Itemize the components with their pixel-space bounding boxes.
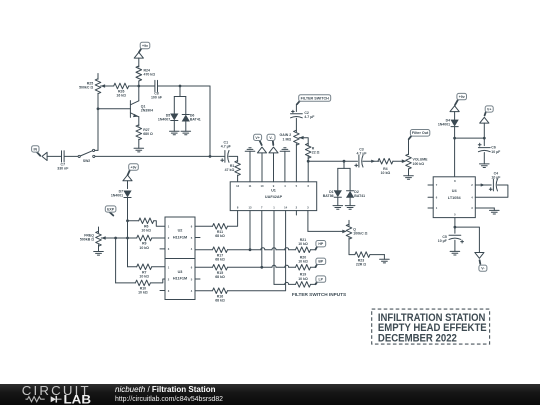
svg-text:10 µF: 10 µF — [438, 239, 448, 243]
wire (pin 5) — [454, 218, 457, 229]
svg-text:100kC Ω: 100kC Ω — [353, 232, 367, 236]
ground (D1) — [333, 206, 343, 210]
node D — [209, 155, 212, 158]
power flag V+ (rail) — [455, 106, 494, 140]
svg-text:10 kΩ: 10 kΩ — [298, 242, 308, 246]
resistor R11 — [195, 211, 238, 238]
potentiometer Q — [342, 220, 367, 254]
ground (C5) — [450, 251, 460, 255]
svg-text:1 MΩ: 1 MΩ — [283, 137, 292, 141]
capacitor C6 — [478, 138, 501, 164]
svg-text:Filter Out: Filter Out — [412, 131, 429, 135]
capacitor C1 — [221, 140, 238, 162]
op-amp U1 UAF42AP — [230, 182, 317, 211]
svg-text:10 kΩ: 10 kΩ — [138, 291, 148, 295]
optocoupler U3 — [160, 259, 200, 300]
svg-text:500kC Ω: 500kC Ω — [79, 86, 93, 90]
wire (HP line hops) — [261, 248, 296, 250]
svg-text:10 kΩ: 10 kΩ — [139, 246, 149, 250]
resistor R — [299, 138, 320, 182]
ground (VOLUME) — [404, 176, 414, 180]
resistor R19 — [296, 273, 317, 288]
svg-text:13: 13 — [249, 206, 252, 210]
op-amp U4 LT1054 — [428, 177, 475, 218]
capacitor C3 — [355, 147, 379, 167]
svg-text:FILTER SWITCH INPUTS: FILTER SWITCH INPUTS — [292, 292, 346, 297]
svg-text:22R Ω: 22R Ω — [356, 262, 366, 266]
svg-text:68 kΩ: 68 kΩ — [215, 234, 225, 238]
wire — [209, 86, 211, 156]
resistor R10 — [116, 238, 165, 295]
svg-text:BAT41: BAT41 — [354, 194, 365, 198]
svg-text:68 kΩ: 68 kΩ — [215, 257, 225, 261]
svg-text:BAT86: BAT86 — [323, 194, 334, 198]
potentiometer VOLUME — [402, 139, 428, 175]
svg-text:100 kΩ: 100 kΩ — [413, 162, 425, 166]
terminal EXP — [105, 206, 116, 216]
svg-text:LAB: LAB — [64, 392, 92, 405]
power flag V+ (pin 10) — [254, 134, 267, 182]
diode D4 — [438, 118, 458, 176]
terminal FILTER SWITCH — [297, 95, 331, 105]
terminal LP — [316, 276, 326, 284]
svg-text:LT1054: LT1054 — [448, 196, 462, 200]
svg-text:22 Ω: 22 Ω — [312, 150, 320, 154]
diode D7 — [111, 189, 131, 266]
svg-text:10 kΩ: 10 kΩ — [141, 229, 151, 233]
svg-text:UAF42AP: UAF42AP — [265, 195, 283, 199]
resistor R23 — [349, 252, 384, 267]
diode D2 — [347, 168, 366, 205]
optocoupler U2 — [160, 217, 200, 259]
power flag V- (pin 9) — [267, 134, 278, 182]
svg-text:10: 10 — [261, 184, 264, 188]
capacitor C7 — [57, 151, 78, 171]
resistor R4 — [378, 158, 402, 175]
diode D5 — [158, 86, 186, 131]
svg-text:14: 14 — [284, 206, 287, 210]
terminal IN — [32, 146, 62, 161]
label FILTER SWITCH INPUTS — [292, 292, 346, 297]
ground (U1 pin 11) — [245, 148, 255, 182]
svg-text:U2: U2 — [178, 229, 183, 233]
svg-text:4.7 µF: 4.7 µF — [221, 144, 232, 148]
svg-text:100 nF: 100 nF — [151, 95, 163, 99]
svg-text:IN: IN — [34, 147, 38, 151]
svg-text:SW2: SW2 — [83, 159, 90, 163]
wire — [95, 155, 224, 157]
svg-text:1N4007: 1N4007 — [158, 117, 170, 121]
resistor R24 — [136, 66, 155, 86]
svg-text:nicbueth / Filtration Station: nicbueth / Filtration Station — [115, 385, 216, 394]
svg-text:16 kΩ: 16 kΩ — [116, 94, 126, 98]
svg-text:+9v: +9v — [131, 165, 137, 169]
ground (C6) — [480, 164, 490, 168]
ground (R27) — [134, 148, 144, 152]
svg-text:10 kΩ: 10 kΩ — [381, 171, 391, 175]
node G — [114, 237, 117, 240]
svg-text:10 kΩ: 10 kΩ — [298, 277, 308, 281]
svg-text:12: 12 — [236, 184, 239, 188]
wire (pin 1) — [274, 211, 296, 285]
transistor Q1 — [98, 86, 153, 126]
wire (pin 7) — [260, 211, 263, 269]
resistor R21 — [296, 238, 317, 253]
resistor R16 — [195, 211, 286, 303]
svg-text:BP: BP — [318, 260, 324, 264]
switch SW2 — [78, 149, 98, 163]
resistor R20 — [296, 256, 317, 271]
svg-text:4.7 µF: 4.7 µF — [304, 115, 315, 119]
node J — [453, 137, 456, 140]
svg-text:68 kΩ: 68 kΩ — [215, 298, 225, 302]
svg-text:H11F1M: H11F1M — [173, 235, 187, 239]
node A — [137, 85, 140, 88]
ground (D6) — [181, 131, 191, 135]
capacitor C8 — [151, 80, 210, 99]
svg-text:10 µF: 10 µF — [491, 150, 501, 154]
wire (BP line hops) — [272, 265, 296, 267]
ground (U4 pin 3) — [475, 208, 499, 214]
svg-text:BAT41: BAT41 — [190, 117, 201, 121]
power flag +9v (U4 supply) — [450, 93, 467, 120]
svg-text:10 kΩ: 10 kΩ — [139, 275, 149, 279]
terminal Filter Out — [409, 130, 430, 140]
svg-text:U3: U3 — [178, 270, 183, 274]
svg-text:68 kΩ: 68 kΩ — [215, 275, 225, 279]
svg-text:10 kΩ: 10 kΩ — [298, 260, 308, 264]
ground (D5) — [170, 131, 180, 135]
svg-text:10 µF: 10 µF — [491, 176, 501, 180]
svg-text:EXP: EXP — [107, 207, 115, 211]
ground (R23) — [380, 259, 390, 263]
wire (pin 2 stub) — [295, 211, 297, 215]
node I — [343, 160, 346, 163]
svg-text:LP: LP — [319, 278, 324, 282]
resistor R17 — [195, 247, 261, 262]
svg-text:V+: V+ — [487, 107, 491, 111]
resistor R9 — [101, 235, 165, 250]
capacitor C4 — [475, 171, 508, 197]
resistor R6 — [128, 218, 166, 233]
svg-text:1N4001: 1N4001 — [438, 123, 450, 127]
node H — [307, 160, 310, 163]
svg-text:U1: U1 — [271, 189, 276, 193]
svg-text:470 kΩ: 470 kΩ — [144, 73, 156, 77]
ground (U1 pin 4) — [280, 148, 290, 182]
diode D6 — [182, 97, 201, 132]
wire (pin 3) — [308, 211, 342, 232]
node E — [126, 219, 129, 222]
resistor R26 — [101, 83, 155, 97]
terminal HP — [316, 241, 326, 250]
resistor R27 — [136, 125, 153, 149]
svg-text:+9v: +9v — [459, 95, 465, 99]
power flag V- (rail) — [455, 227, 487, 271]
svg-text:500kB Ω: 500kB Ω — [80, 238, 94, 242]
svg-text:330 nF: 330 nF — [57, 167, 69, 171]
svg-text:47 kΩ: 47 kΩ — [225, 168, 235, 172]
node B — [179, 85, 182, 88]
diode D1 — [323, 161, 350, 205]
potentiometer FREQ — [80, 227, 106, 252]
svg-text:http://circuitlab.com/c84v54bs: http://circuitlab.com/c84v54bsrsd82 — [115, 396, 223, 403]
terminal BP — [316, 258, 326, 267]
svg-text:DECEMBER 2022: DECEMBER 2022 — [378, 333, 457, 345]
potentiometer GAIN 2 — [280, 130, 304, 182]
power flag +9v (R24 supply) — [134, 42, 150, 67]
svg-text:FILTER SWITCH: FILTER SWITCH — [301, 96, 330, 100]
svg-text:V+: V+ — [255, 136, 259, 140]
potentiometer R25 — [79, 74, 101, 151]
node F — [126, 237, 129, 240]
svg-text:1N4001: 1N4001 — [111, 193, 123, 197]
node C — [97, 107, 100, 110]
wire — [308, 160, 357, 162]
ground (FREQ) — [94, 252, 104, 256]
resistor R15 — [195, 265, 272, 280]
svg-text:2N3904: 2N3904 — [141, 109, 153, 113]
wire (pin 13) — [249, 211, 252, 252]
svg-text:+9v: +9v — [142, 44, 148, 48]
capacitor C5 — [438, 227, 464, 251]
title box — [372, 309, 490, 344]
svg-text:680 Ω: 680 Ω — [143, 132, 153, 136]
svg-text:HP: HP — [318, 242, 324, 246]
power flag +9v (EXP supply) — [123, 164, 138, 189]
ground (D2) — [345, 206, 355, 210]
resistor R1 — [225, 161, 241, 182]
resistor R7 — [128, 264, 166, 279]
svg-text:4.7 µF: 4.7 µF — [357, 151, 368, 155]
svg-text:H11F1M: H11F1M — [173, 276, 187, 280]
capacitor C2 — [291, 104, 316, 132]
